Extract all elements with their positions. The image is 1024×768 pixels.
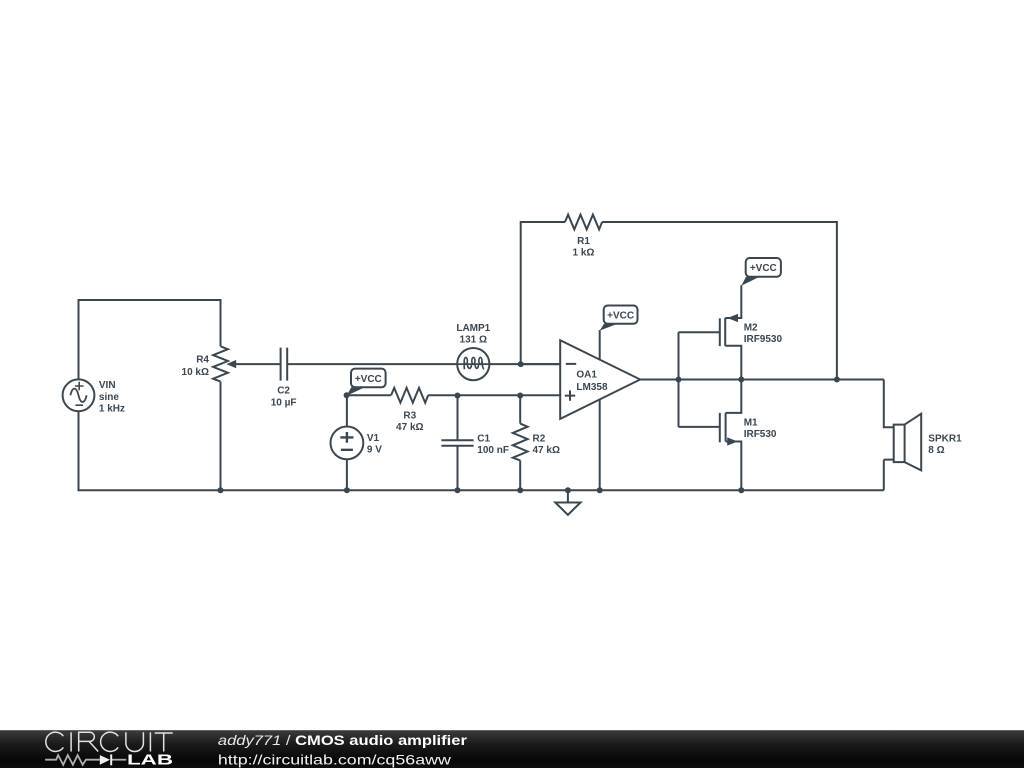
svg-text:C2: C2 (277, 386, 290, 397)
svg-text:10 µF: 10 µF (271, 397, 297, 408)
svg-text:100 nF: 100 nF (477, 445, 509, 456)
svg-text:R1: R1 (577, 236, 590, 247)
svg-text:47 kΩ: 47 kΩ (396, 422, 423, 433)
svg-text:IRF9530: IRF9530 (744, 334, 783, 345)
svg-text:+VCC: +VCC (607, 311, 634, 322)
svg-text:C1: C1 (477, 433, 490, 444)
svg-text:VIN: VIN (99, 380, 116, 391)
svg-text:sine: sine (99, 392, 119, 403)
svg-text:LM358: LM358 (576, 382, 608, 393)
svg-text:R3: R3 (403, 410, 416, 421)
svg-text:V1: V1 (367, 433, 380, 444)
svg-text:M1: M1 (744, 418, 758, 429)
svg-text:8 Ω: 8 Ω (928, 445, 944, 456)
svg-text:9 V: 9 V (367, 445, 382, 456)
svg-text:LAB: LAB (127, 753, 173, 768)
svg-text:SPKR1: SPKR1 (928, 433, 962, 444)
svg-text:http://circuitlab.com/cq56aww: http://circuitlab.com/cq56aww (218, 751, 452, 767)
svg-text:OA1: OA1 (576, 370, 597, 381)
svg-text:10 kΩ: 10 kΩ (182, 367, 209, 378)
svg-text:M2: M2 (744, 323, 758, 334)
svg-text:1 kHz: 1 kHz (99, 404, 125, 415)
svg-text:131 Ω: 131 Ω (460, 334, 487, 345)
svg-text:+VCC: +VCC (750, 263, 777, 274)
svg-text:R4: R4 (196, 355, 209, 366)
svg-text:+VCC: +VCC (355, 374, 382, 385)
svg-text:LAMP1: LAMP1 (456, 323, 490, 334)
svg-text:addy771 / CMOS audio amplifier: addy771 / CMOS audio amplifier (218, 732, 468, 748)
svg-text:47 kΩ: 47 kΩ (533, 445, 560, 456)
svg-text:IRF530: IRF530 (744, 429, 777, 440)
svg-text:1 kΩ: 1 kΩ (573, 247, 595, 258)
svg-text:R2: R2 (533, 433, 546, 444)
